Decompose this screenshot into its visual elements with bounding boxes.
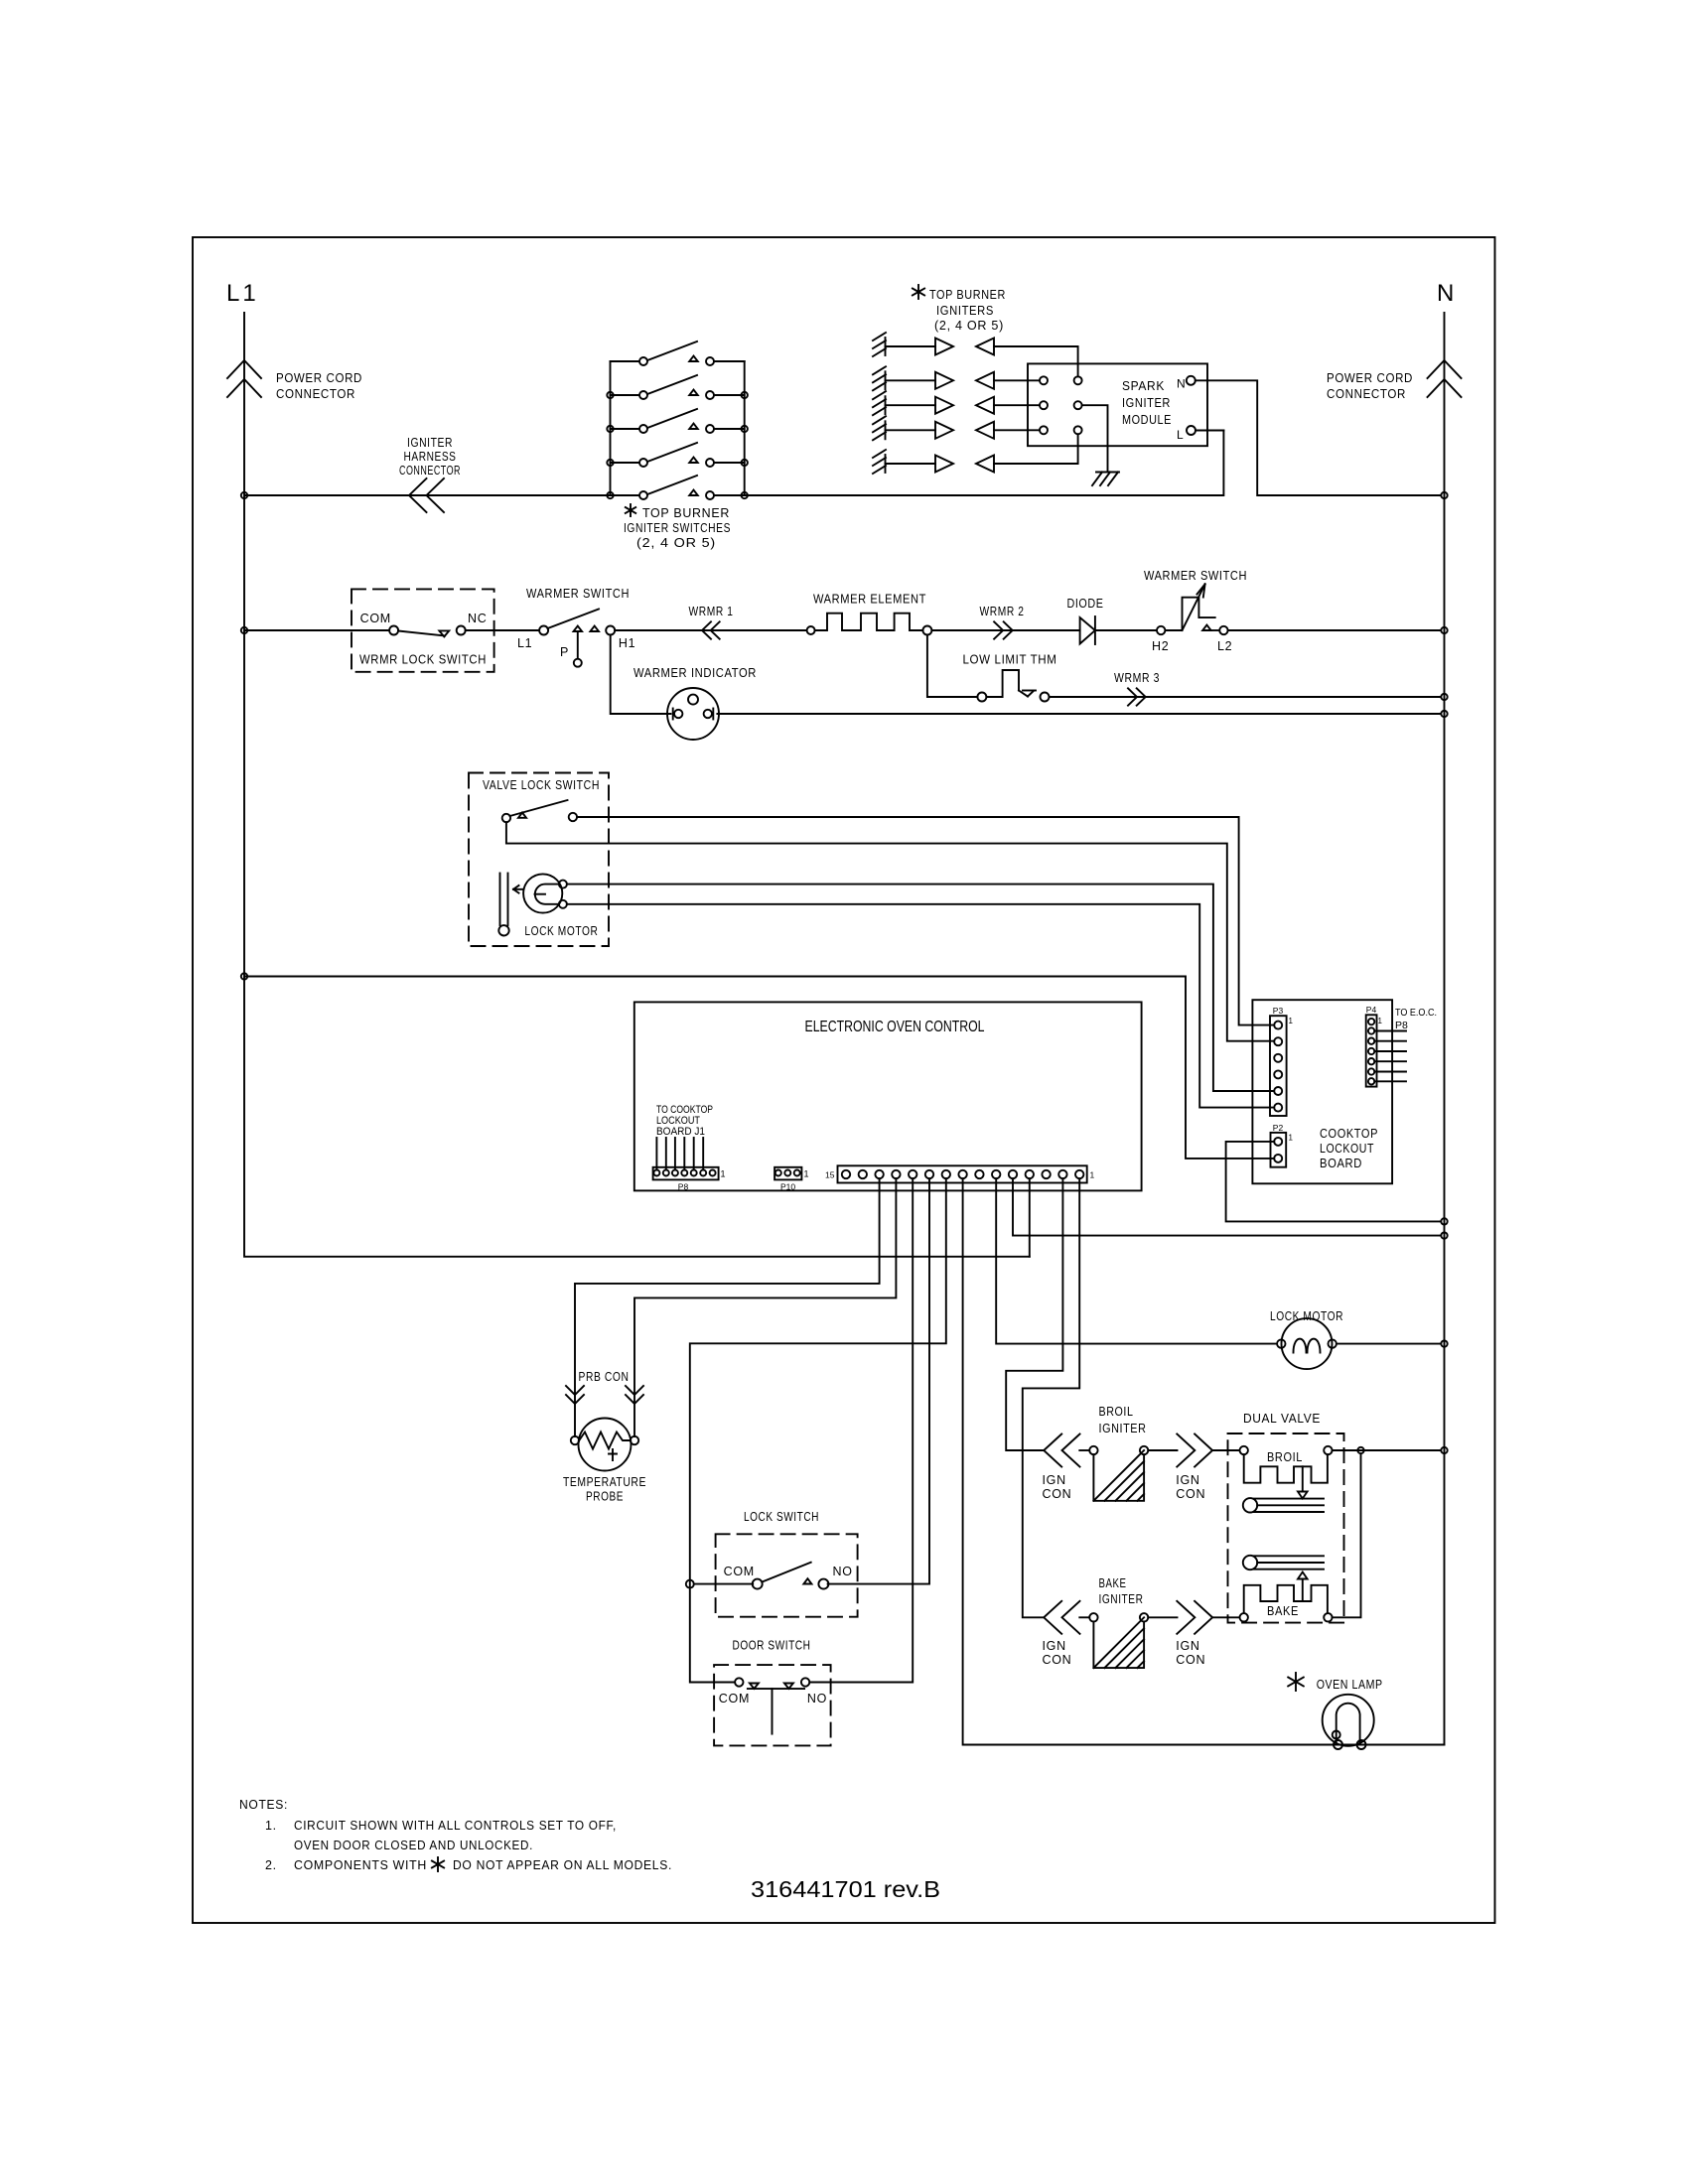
label IGN CON broil right <box>1176 1473 1205 1501</box>
svg-text:WRMR 3: WRMR 3 <box>1114 671 1160 685</box>
junction broil line valve return <box>1357 1447 1363 1453</box>
door switch box <box>714 1665 831 1745</box>
svg-text:OVEN DOOR CLOSED AND UNLOCKED.: OVEN DOOR CLOSED AND UNLOCKED. <box>294 1839 533 1852</box>
warmer indicator lamp <box>667 688 719 740</box>
svg-text:NO: NO <box>833 1565 853 1578</box>
svg-text:IGN: IGN <box>1043 1473 1066 1487</box>
svg-text:CON: CON <box>1043 1487 1072 1501</box>
svg-text:IGN: IGN <box>1043 1639 1066 1653</box>
svg-text:P: P <box>560 645 569 659</box>
svg-text:IGNITER: IGNITER <box>1099 1421 1147 1435</box>
svg-text:WARMER ELEMENT: WARMER ELEMENT <box>813 592 926 607</box>
svg-text:IGNITER: IGNITER <box>1099 1591 1144 1606</box>
junction N bus lock motor line <box>1441 1340 1447 1346</box>
low limit thermostat <box>977 670 1049 702</box>
top burner igniter electrode row 2 <box>873 366 886 390</box>
wire pin5 to N bus <box>1013 1178 1441 1235</box>
connector WRMR 2 <box>994 621 1013 638</box>
diode D1 <box>1080 616 1095 644</box>
bake igniter connector IGN CON left <box>1044 1601 1079 1634</box>
lock switch S1 <box>753 1563 829 1589</box>
dual valve box <box>1228 1433 1344 1623</box>
connector WRMR 3 <box>1128 688 1146 705</box>
svg-text:COMPONENTS WITH: COMPONENTS WITH <box>294 1858 427 1872</box>
svg-text:CONNECTOR: CONNECTOR <box>399 463 461 478</box>
wire bake valve return up to broil line <box>1333 1453 1361 1617</box>
svg-text:BAKE: BAKE <box>1267 1604 1299 1618</box>
wire junction to lock COM <box>694 1583 753 1585</box>
probe connector PRB CON <box>566 1386 643 1404</box>
wire valve lock motor pin2 to P3 pin 6 <box>567 904 1274 1108</box>
pin N of spark module <box>1177 376 1196 391</box>
svg-text:IGN: IGN <box>1176 1639 1199 1653</box>
svg-text:H2: H2 <box>1152 639 1169 653</box>
top burner igniter switches bank <box>607 341 748 499</box>
svg-text:HARNESS: HARNESS <box>404 449 457 464</box>
wire valve lock switch to P3 pin 1 <box>577 817 1274 1025</box>
svg-text:TEMPERATURE: TEMPERATURE <box>563 1474 646 1489</box>
connector P2 <box>1271 1133 1287 1167</box>
junction on L1 at lockout feed <box>241 973 247 979</box>
connector WRMR 1 <box>702 621 720 638</box>
valve lock motor plunger <box>498 874 523 936</box>
svg-text:DIODE: DIODE <box>1067 596 1104 611</box>
svg-text:WARMER SWITCH: WARMER SWITCH <box>526 586 630 601</box>
wire igniter row 2 to module pin <box>994 379 1040 381</box>
svg-text:CON: CON <box>1043 1653 1072 1667</box>
wire indicator to N bus <box>717 713 1440 715</box>
svg-text:LOCK MOTOR: LOCK MOTOR <box>1270 1308 1343 1323</box>
wire pin1 to bake igniter <box>1023 1178 1079 1617</box>
svg-text:LOCKOUT: LOCKOUT <box>1320 1141 1374 1156</box>
svg-text:NO: NO <box>807 1692 827 1706</box>
wire low limit to N bus <box>1050 696 1441 698</box>
bake gas outlet <box>1243 1556 1324 1570</box>
igniter connector arrows row 4 <box>886 422 995 439</box>
svg-text:COM: COM <box>724 1565 755 1578</box>
spark module connector pins <box>1040 376 1082 434</box>
svg-text:BROIL: BROIL <box>1267 1450 1303 1464</box>
svg-text:COOKTOP: COOKTOP <box>1320 1126 1378 1141</box>
wire igniter row 4 to module pin <box>994 429 1040 431</box>
label cooktop lockout board <box>1320 1126 1378 1170</box>
wire L1 bus vertical <box>244 313 1030 1257</box>
ground symbol <box>1092 473 1119 486</box>
wire N bus vertical <box>1444 313 1446 1745</box>
electronic oven control box U2 <box>634 1002 1142 1190</box>
svg-text:BOARD: BOARD <box>1320 1156 1362 1170</box>
svg-text:H1: H1 <box>619 636 635 650</box>
warmer switch left L1 pole <box>539 610 599 635</box>
svg-text:P8: P8 <box>678 1182 689 1192</box>
svg-text:L1: L1 <box>226 280 259 307</box>
svg-text:IGNITERS: IGNITERS <box>936 304 994 318</box>
door switch S2 <box>735 1678 809 1733</box>
wire element to diode <box>931 629 1079 631</box>
wire diode to H2 <box>1095 629 1157 631</box>
svg-text:VALVE LOCK SWITCH: VALVE LOCK SWITCH <box>483 778 600 792</box>
svg-text:TOP BURNER: TOP BURNER <box>929 288 1006 302</box>
svg-text:15: 15 <box>825 1170 835 1180</box>
connector P3 <box>1270 1016 1287 1116</box>
wire spark module N to N bus <box>1196 380 1441 495</box>
svg-text:NC: NC <box>468 612 487 625</box>
bake igniter E2 <box>1079 1613 1148 1668</box>
svg-text:CON: CON <box>1176 1487 1205 1501</box>
temperature probe RT1 <box>571 1419 638 1471</box>
svg-text:P8: P8 <box>1395 1020 1408 1031</box>
wire valve lock motor pin1 to P3 pin 5 <box>567 885 1274 1091</box>
wires P4 stubs to EOC P8 <box>1374 1031 1406 1082</box>
svg-text:LOW LIMIT THM: LOW LIMIT THM <box>963 652 1057 667</box>
svg-text:BAKE: BAKE <box>1099 1575 1127 1590</box>
wire element junction down to low limit <box>927 635 978 698</box>
svg-text:316441701 rev.B: 316441701 rev.B <box>751 1876 940 1902</box>
label oven lamp <box>1288 1673 1383 1692</box>
label spark igniter module <box>1122 378 1172 427</box>
svg-text:P4: P4 <box>1366 1005 1377 1015</box>
label top burner igniters <box>913 285 1006 333</box>
svg-text:N: N <box>1437 280 1455 307</box>
svg-text:P3: P3 <box>1273 1006 1284 1016</box>
junction N bus at warmer line <box>1441 627 1447 633</box>
svg-text:LOCK SWITCH: LOCK SWITCH <box>744 1509 819 1524</box>
pin L of spark module <box>1177 426 1196 442</box>
svg-text:P10: P10 <box>780 1182 795 1192</box>
wire warmer line from L1 <box>244 629 389 631</box>
connector P1 main 15 pin <box>838 1165 1087 1182</box>
spark igniter module box U1 <box>1028 363 1207 446</box>
svg-text:POWER CORD: POWER CORD <box>276 370 362 385</box>
svg-text:1: 1 <box>804 1169 809 1179</box>
wire P2 pin1 to N bus <box>1226 1142 1441 1222</box>
broil valve plunger arrow <box>1298 1466 1308 1498</box>
svg-text:BOARD J1: BOARD J1 <box>656 1126 705 1138</box>
warmer switch H1 contact <box>590 626 599 632</box>
junction on L1 at igniter line <box>241 492 247 498</box>
connector P4 <box>1366 1015 1377 1086</box>
oven lamp DS1 <box>1323 1695 1374 1749</box>
svg-text:WRMR LOCK SWITCH: WRMR LOCK SWITCH <box>359 653 487 667</box>
broil valve coil <box>1240 1446 1333 1483</box>
svg-text:NOTES:: NOTES: <box>239 1798 288 1812</box>
svg-text:PROBE: PROBE <box>586 1489 624 1504</box>
label top burner igniter switches <box>624 504 731 550</box>
wire H1 down to indicator <box>611 635 671 715</box>
pin H1 <box>606 626 615 635</box>
label temperature probe <box>563 1474 646 1504</box>
warmer lock switch box <box>352 589 494 671</box>
bake valve coil <box>1240 1585 1333 1622</box>
warmer switch right <box>1165 584 1214 630</box>
svg-text:PRB CON: PRB CON <box>579 1370 630 1384</box>
wire pin8 to oven lamp line <box>963 1178 1445 1744</box>
power cord connector L1 <box>227 360 261 397</box>
igniter connector arrows row 1 <box>886 339 995 355</box>
label IGN CON bake right <box>1176 1639 1205 1667</box>
igniter harness connector <box>409 478 444 512</box>
broil igniter connector IGN CON right <box>1148 1434 1239 1467</box>
svg-text:TOP BURNER: TOP BURNER <box>642 506 730 520</box>
valve lock switch box <box>469 773 609 947</box>
svg-text:1: 1 <box>721 1169 726 1179</box>
junction N bus at igniter line <box>1441 492 1447 498</box>
warmer lock switch <box>389 626 466 637</box>
broil igniter E1 <box>1079 1446 1148 1501</box>
wire igniter row 3 to module pin <box>994 404 1040 406</box>
svg-text:OVEN LAMP: OVEN LAMP <box>1317 1677 1383 1692</box>
junction N bus at low limit line <box>1441 694 1447 700</box>
valve lock motor <box>523 874 567 912</box>
wire broil valve to N bus <box>1333 1449 1441 1451</box>
igniter connector arrows row 5 <box>886 456 995 473</box>
top burner igniter electrode row 5 <box>873 450 886 474</box>
valve lock switch <box>502 800 577 822</box>
svg-text:CONNECTOR: CONNECTOR <box>276 386 355 401</box>
svg-text:IGNITER SWITCHES: IGNITER SWITCHES <box>624 521 731 535</box>
warmer switch P contact <box>574 626 583 667</box>
pin H2 <box>1157 626 1165 634</box>
wire igniter row 5 to module pin <box>994 434 1078 464</box>
wire igniter row 1 to module pin <box>994 346 1078 376</box>
wire valve lock switch pole to P3 pin 2 <box>506 822 1274 1040</box>
wire NC to warmer switch L1 <box>466 629 539 631</box>
connector P10 <box>774 1167 801 1180</box>
svg-text:L1: L1 <box>517 636 532 650</box>
junction N bus P2 line <box>1441 1218 1447 1224</box>
wire pin2 to broil igniter <box>1006 1178 1062 1450</box>
junction lock switch COM feed <box>686 1580 694 1588</box>
wire pin12 to probe right <box>634 1178 896 1436</box>
svg-text:WRMR 2: WRMR 2 <box>980 605 1025 618</box>
junction N bus pin5 line <box>1441 1232 1447 1238</box>
notes text <box>239 1798 617 1872</box>
warmer switch L2 contact <box>1202 625 1211 631</box>
label to cooktop lockout board J1 <box>656 1104 713 1138</box>
cooktop lockout board box U3 <box>1252 1000 1392 1183</box>
wire igniter line from bank to spark module L <box>745 431 1224 496</box>
label bake igniter <box>1099 1575 1144 1606</box>
svg-text:L: L <box>1177 428 1184 442</box>
lock switch box <box>716 1534 858 1616</box>
igniter connector arrows row 2 <box>886 372 995 389</box>
lock motor M1 <box>1277 1318 1336 1369</box>
svg-text:LOCK MOTOR: LOCK MOTOR <box>524 924 598 938</box>
svg-text:DOOR SWITCH: DOOR SWITCH <box>733 1638 811 1653</box>
svg-text:TO E.O.C.: TO E.O.C. <box>1395 1007 1437 1019</box>
svg-text:POWER CORD: POWER CORD <box>1327 370 1413 385</box>
asterisk in note 2 <box>437 1857 439 1871</box>
wire lock motor to N bus <box>1336 1343 1441 1345</box>
svg-text:DO NOT APPEAR ON ALL MODELS.: DO NOT APPEAR ON ALL MODELS. <box>453 1858 672 1872</box>
svg-text:IGNITER: IGNITER <box>1122 395 1171 410</box>
svg-text:CON: CON <box>1176 1653 1205 1667</box>
svg-text:DUAL VALVE: DUAL VALVE <box>1243 1411 1321 1426</box>
svg-text:(2, 4 OR 5): (2, 4 OR 5) <box>934 319 1004 333</box>
svg-text:1: 1 <box>1378 1017 1383 1025</box>
junction N bus at indicator line <box>1441 711 1447 717</box>
svg-text:WARMER INDICATOR: WARMER INDICATOR <box>633 665 757 680</box>
wire pin6 to lock motor <box>996 1178 1277 1343</box>
svg-text:N: N <box>1177 377 1186 391</box>
wire L2 to N bus <box>1228 629 1441 631</box>
wire L1 bus to P2 pin 2 <box>244 977 1274 1159</box>
wire spark module ground lead <box>1082 405 1108 472</box>
igniter connector arrows row 3 <box>886 397 995 414</box>
warmer element <box>807 614 932 635</box>
svg-text:BROIL: BROIL <box>1099 1404 1134 1419</box>
svg-text:P2: P2 <box>1273 1123 1284 1133</box>
svg-text:L2: L2 <box>1217 639 1232 653</box>
svg-text:(2, 4 OR 5): (2, 4 OR 5) <box>636 536 716 550</box>
wire igniter line from L1 to switch bank <box>244 494 611 496</box>
label IGN CON broil left <box>1043 1473 1072 1501</box>
top burner igniter electrode row 1 <box>873 333 886 356</box>
wire H1 to warmer element <box>615 629 806 631</box>
svg-text:IGN: IGN <box>1176 1473 1199 1487</box>
svg-text:1.: 1. <box>265 1819 277 1833</box>
svg-text:ELECTRONIC OVEN CONTROL: ELECTRONIC OVEN CONTROL <box>805 1019 985 1035</box>
broil gas outlet <box>1243 1498 1324 1512</box>
wires P8 stubs to J1 <box>656 1138 703 1170</box>
wire pin13 to probe left <box>575 1178 880 1436</box>
connector P8 <box>653 1167 719 1180</box>
top burner igniter electrode row 4 <box>873 416 886 440</box>
bake valve plunger arrow <box>1298 1572 1308 1602</box>
svg-text:COM: COM <box>719 1692 750 1706</box>
svg-text:IGNITER: IGNITER <box>407 435 453 450</box>
wire pin4 to L1 bus <box>1029 1178 1031 1257</box>
junction on L1 at warmer line <box>241 627 247 633</box>
svg-text:WARMER SWITCH: WARMER SWITCH <box>1144 568 1247 583</box>
svg-text:1: 1 <box>1289 1017 1294 1025</box>
svg-text:2.: 2. <box>265 1858 277 1872</box>
svg-text:SPARK: SPARK <box>1122 378 1165 393</box>
svg-text:COM: COM <box>360 612 391 625</box>
top burner igniter electrode row 3 <box>873 391 886 415</box>
wire pin10 to lock switch NO <box>828 1178 929 1583</box>
svg-text:1: 1 <box>1289 1134 1294 1143</box>
svg-text:MODULE: MODULE <box>1122 412 1172 427</box>
pin L2 <box>1210 626 1227 634</box>
power cord connector N <box>1428 360 1462 397</box>
broil igniter connector IGN CON left <box>1044 1434 1079 1467</box>
svg-text:CIRCUIT SHOWN WITH ALL CONTROL: CIRCUIT SHOWN WITH ALL CONTROLS SET TO O… <box>294 1819 617 1833</box>
bake igniter connector IGN CON right <box>1148 1601 1239 1634</box>
wire spark module L to igniter line <box>1196 430 1223 432</box>
wire pin9 to lock switch COM <box>690 1178 946 1682</box>
label broil igniter <box>1099 1404 1147 1435</box>
junction N bus broil line <box>1441 1447 1447 1453</box>
label IGN CON bake left <box>1043 1639 1072 1667</box>
svg-text:CONNECTOR: CONNECTOR <box>1327 386 1406 401</box>
svg-text:WRMR 1: WRMR 1 <box>689 605 734 618</box>
wire pin11 to door switch NO <box>809 1178 913 1682</box>
svg-text:1: 1 <box>1090 1170 1095 1180</box>
